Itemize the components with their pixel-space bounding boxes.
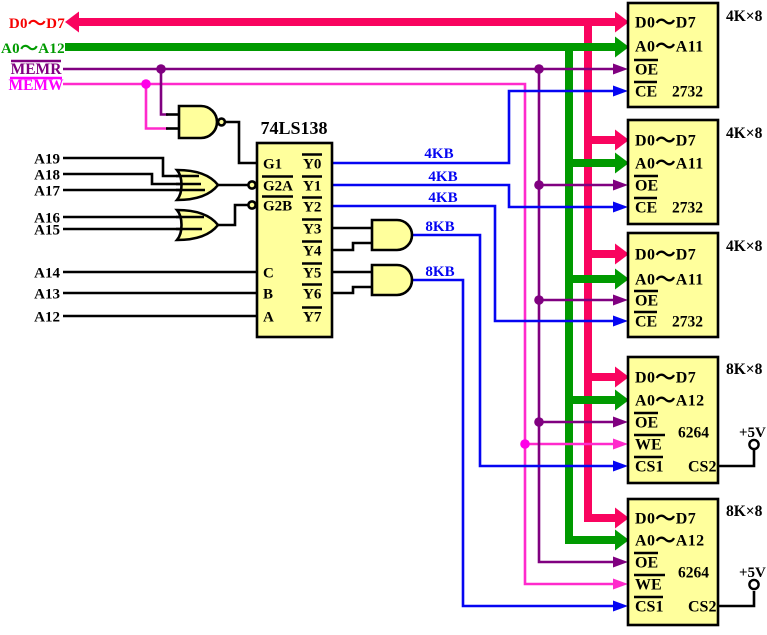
svg-text:A: A xyxy=(263,310,274,326)
svg-text:A18: A18 xyxy=(34,168,60,184)
svg-text:Y6: Y6 xyxy=(303,287,322,303)
svg-text:A15: A15 xyxy=(34,223,60,239)
svg-text:8K×8: 8K×8 xyxy=(726,503,763,520)
svg-text:G1: G1 xyxy=(263,157,282,173)
svg-text:CS1: CS1 xyxy=(635,599,663,616)
svg-text:Y1: Y1 xyxy=(303,179,321,195)
svg-text:8K×8: 8K×8 xyxy=(726,361,763,378)
svg-text:Y3: Y3 xyxy=(303,222,321,238)
svg-text:2732: 2732 xyxy=(672,84,703,101)
svg-text:A12: A12 xyxy=(34,310,60,326)
svg-text:A14: A14 xyxy=(34,266,60,282)
svg-text:CS2: CS2 xyxy=(688,599,716,616)
svg-text:OE: OE xyxy=(635,178,658,195)
svg-text:Y5: Y5 xyxy=(303,266,321,282)
svg-text:Y4: Y4 xyxy=(303,244,322,260)
svg-text:A0～A12: A0～A12 xyxy=(635,530,705,552)
svg-text:CE: CE xyxy=(635,314,657,331)
svg-text:4K×8: 4K×8 xyxy=(726,238,763,255)
svg-text:A0～A11: A0～A11 xyxy=(635,269,704,291)
svg-text:A0～A11: A0～A11 xyxy=(635,153,704,175)
svg-text:OE: OE xyxy=(635,415,658,432)
svg-text:A13: A13 xyxy=(34,287,60,303)
svg-text:D0～D7: D0～D7 xyxy=(635,367,696,389)
svg-text:Y0: Y0 xyxy=(303,157,321,173)
svg-text:6264: 6264 xyxy=(678,565,709,582)
svg-text:OE: OE xyxy=(635,555,658,572)
svg-text:D0～D7: D0～D7 xyxy=(9,14,65,34)
svg-text:4K×8: 4K×8 xyxy=(726,125,763,142)
svg-text:2732: 2732 xyxy=(672,314,703,331)
svg-text:C: C xyxy=(263,266,274,282)
svg-text:8KB: 8KB xyxy=(425,264,454,280)
svg-text:4K×8: 4K×8 xyxy=(726,8,763,25)
svg-text:A19: A19 xyxy=(34,152,60,168)
svg-text:Y7: Y7 xyxy=(303,310,322,326)
svg-text:8KB: 8KB xyxy=(425,219,454,235)
svg-text:A0～A12: A0～A12 xyxy=(635,390,705,412)
svg-text:D0～D7: D0～D7 xyxy=(635,12,696,34)
svg-text:MEMW: MEMW xyxy=(8,77,64,94)
svg-text:WE: WE xyxy=(635,437,662,454)
svg-text:4KB: 4KB xyxy=(428,190,457,206)
svg-text:D0～D7: D0～D7 xyxy=(635,508,696,530)
svg-text:2732: 2732 xyxy=(672,200,703,217)
svg-text:A0～A11: A0～A11 xyxy=(635,36,704,58)
svg-text:OE: OE xyxy=(635,62,658,79)
svg-text:G2B: G2B xyxy=(263,199,292,215)
svg-text:MEMR: MEMR xyxy=(11,61,63,78)
svg-text:WE: WE xyxy=(635,577,662,594)
svg-text:OE: OE xyxy=(635,293,658,310)
svg-text:4KB: 4KB xyxy=(428,169,457,185)
svg-text:G2A: G2A xyxy=(263,179,293,195)
svg-text:6264: 6264 xyxy=(678,425,709,442)
svg-text:A0～A12: A0～A12 xyxy=(1,39,65,59)
svg-text:CE: CE xyxy=(635,200,657,217)
svg-text:+5V: +5V xyxy=(739,565,766,581)
svg-text:D0～D7: D0～D7 xyxy=(635,244,696,266)
svg-text:CS1: CS1 xyxy=(635,459,663,476)
svg-text:D0～D7: D0～D7 xyxy=(635,130,696,152)
svg-text:B: B xyxy=(263,287,273,303)
svg-text:Y2: Y2 xyxy=(303,200,321,216)
svg-text:74LS138: 74LS138 xyxy=(260,118,327,138)
svg-text:CS2: CS2 xyxy=(688,459,716,476)
svg-text:A17: A17 xyxy=(34,184,60,200)
svg-text:CE: CE xyxy=(635,84,657,101)
svg-text:+5V: +5V xyxy=(739,425,766,441)
svg-text:4KB: 4KB xyxy=(424,146,453,162)
